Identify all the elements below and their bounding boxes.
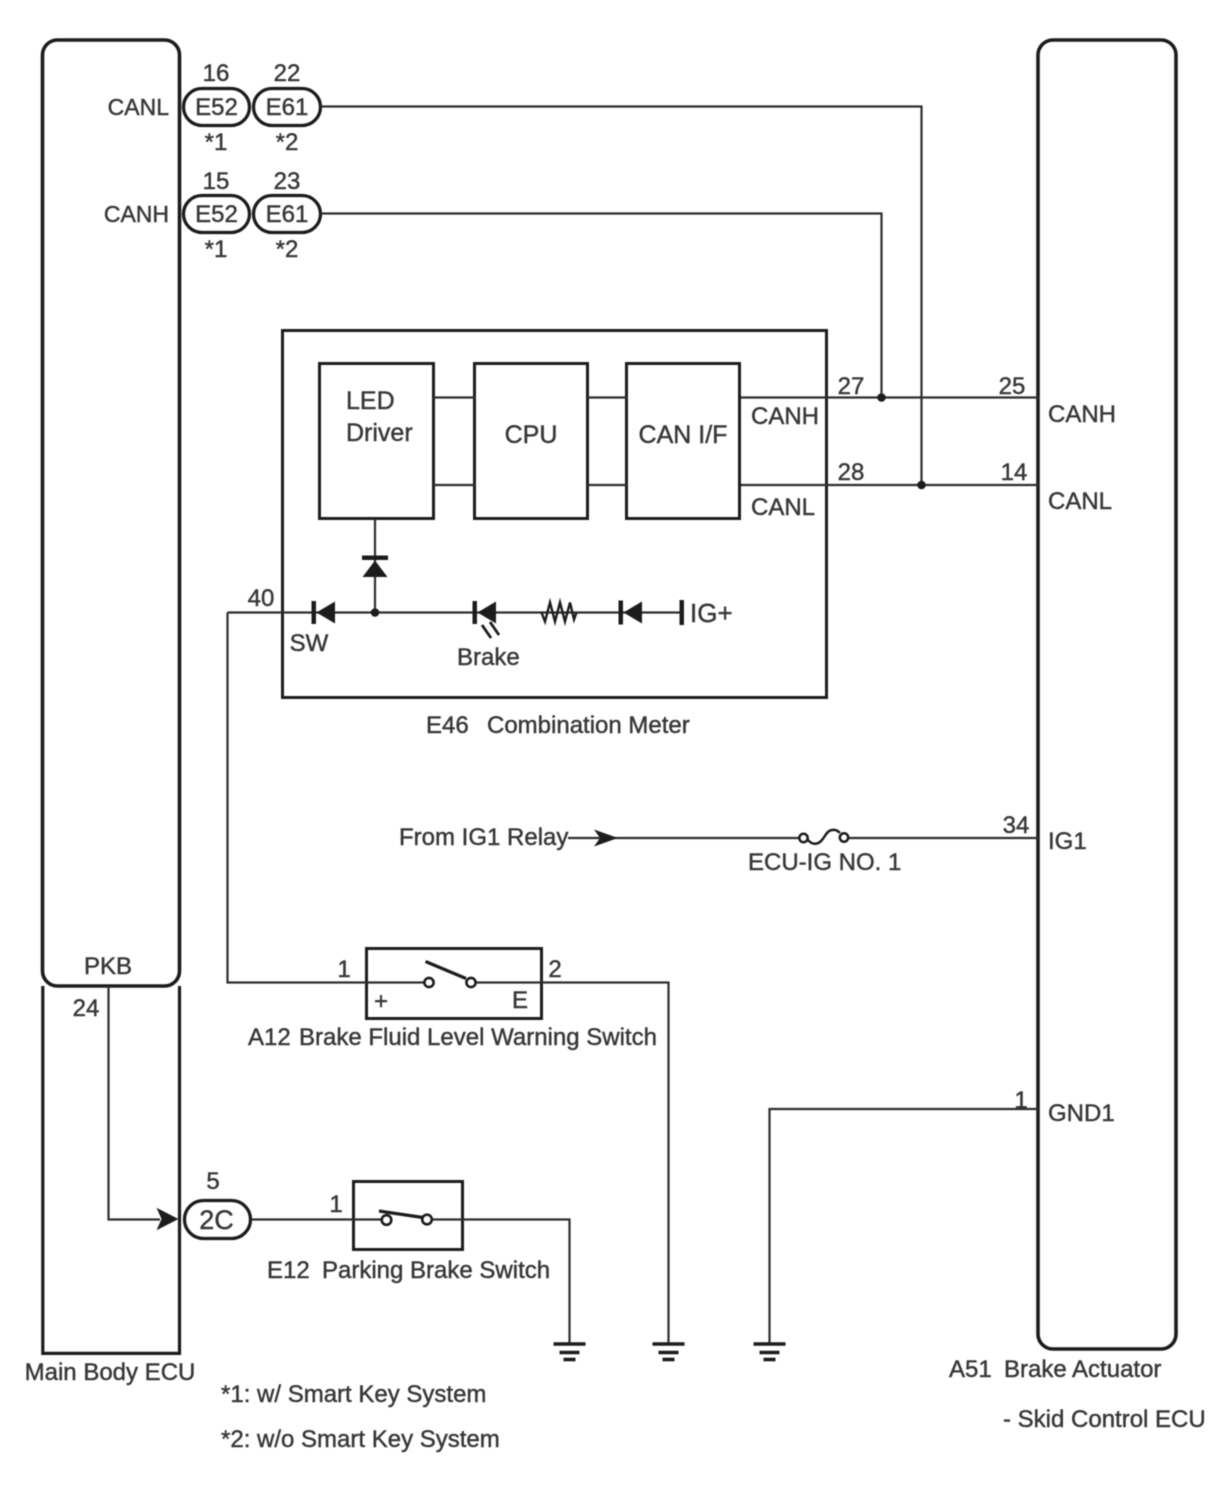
svg-text:CANH: CANH	[104, 201, 169, 227]
svg-text:16: 16	[203, 60, 230, 87]
svg-text:CAN I/F: CAN I/F	[639, 421, 728, 449]
svg-text:34: 34	[1003, 812, 1030, 839]
svg-text:E: E	[512, 987, 528, 1014]
svg-text:Combination Meter: Combination Meter	[487, 712, 690, 739]
svg-text:CPU: CPU	[505, 421, 558, 449]
svg-text:*1: *1	[205, 129, 228, 156]
svg-text:40: 40	[248, 585, 275, 612]
svg-text:15: 15	[203, 168, 230, 195]
svg-text:A12: A12	[248, 1024, 291, 1051]
svg-text:IG+: IG+	[690, 598, 733, 628]
svg-text:*2: *2	[276, 236, 299, 263]
svg-text:PKB: PKB	[84, 953, 132, 980]
svg-text:ECU-IG NO. 1: ECU-IG NO. 1	[748, 849, 901, 876]
svg-text:2: 2	[548, 956, 561, 983]
svg-text:1: 1	[1014, 1087, 1027, 1114]
svg-text:*1: *1	[205, 236, 228, 263]
svg-text:E52: E52	[195, 94, 238, 121]
svg-text:E61: E61	[266, 201, 309, 228]
svg-text:E61: E61	[266, 94, 309, 121]
svg-text:Brake: Brake	[457, 644, 520, 671]
svg-text:22: 22	[274, 60, 301, 87]
svg-text:CANL: CANL	[1048, 488, 1112, 515]
svg-text:*2: *2	[276, 129, 299, 156]
svg-text:1: 1	[337, 956, 350, 983]
svg-text:CANL: CANL	[751, 494, 815, 521]
svg-text:CANH: CANH	[1048, 401, 1116, 428]
svg-text:28: 28	[838, 459, 865, 486]
svg-text:From IG1 Relay: From IG1 Relay	[399, 824, 568, 851]
svg-text:LED: LED	[346, 387, 395, 415]
svg-text:23: 23	[274, 168, 301, 195]
svg-text:27: 27	[838, 373, 865, 400]
svg-text:Brake Fluid Level Warning Swit: Brake Fluid Level Warning Switch	[299, 1024, 657, 1051]
svg-text:E52: E52	[195, 201, 238, 228]
svg-text:2C: 2C	[199, 1205, 234, 1235]
svg-text:Brake Actuator: Brake Actuator	[1004, 1356, 1161, 1383]
svg-text:Main Body ECU: Main Body ECU	[25, 1359, 196, 1386]
svg-text:IG1: IG1	[1048, 828, 1087, 855]
svg-text:E46: E46	[426, 712, 469, 739]
svg-text:+: +	[374, 988, 388, 1015]
svg-text:A51: A51	[949, 1356, 992, 1383]
svg-text:GND1: GND1	[1048, 1100, 1115, 1127]
svg-text:E12: E12	[267, 1257, 310, 1284]
svg-text:SW: SW	[290, 630, 329, 657]
svg-text:*2: w/o Smart Key System: *2: w/o Smart Key System	[221, 1426, 500, 1453]
svg-text:CANL: CANL	[108, 94, 170, 120]
svg-text:25: 25	[999, 373, 1026, 400]
svg-text:*1: w/ Smart Key System: *1: w/ Smart Key System	[221, 1381, 486, 1408]
svg-text:- Skid Control ECU: - Skid Control ECU	[1003, 1406, 1206, 1433]
svg-text:14: 14	[1001, 459, 1028, 486]
svg-text:24: 24	[73, 995, 100, 1022]
svg-text:Driver: Driver	[346, 419, 413, 447]
svg-text:CANH: CANH	[751, 403, 819, 430]
svg-text:Parking Brake Switch: Parking Brake Switch	[322, 1257, 550, 1284]
svg-text:1: 1	[329, 1191, 342, 1218]
svg-text:5: 5	[206, 1168, 219, 1195]
